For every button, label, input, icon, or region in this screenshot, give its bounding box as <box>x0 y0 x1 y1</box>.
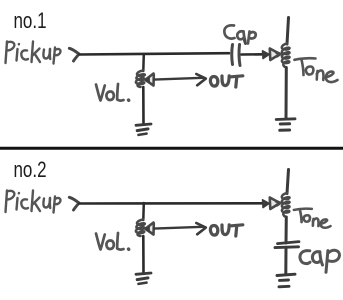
ground (vol, section 2) <box>136 273 151 284</box>
ground (tone cap, section 2) <box>277 274 295 287</box>
ground (vol, section 1) <box>136 124 151 135</box>
wire: cap to ground (section 2) <box>284 248 287 275</box>
wire: tone pot top lead (section 1) <box>287 18 289 45</box>
wire: main horizontal, pickup to tone wiper (section 2) <box>80 202 265 205</box>
label OUT (handwritten, section 1) <box>210 76 242 87</box>
svg-text:no.2: no.2 <box>14 157 47 182</box>
wire: vol pot to ground (section 1) <box>142 87 145 124</box>
divider line <box>0 147 343 150</box>
label Cap (handwritten, section 1) <box>224 25 255 43</box>
tone wiper arrow (section 1) <box>263 49 281 61</box>
wire: vol wiper to OUT arrow (section 2) <box>154 227 203 229</box>
capacitor C2 (tone cap, section 2) <box>275 242 299 248</box>
ground (tone, section 1) <box>276 119 295 131</box>
pickup arrow (section 2) <box>69 197 79 210</box>
potentiometer TONE (section 2) <box>282 193 290 217</box>
label OUT (handwritten, section 2) <box>210 225 242 236</box>
wire: tone pot to cap (section 2) <box>285 217 288 243</box>
svg-text:no.1: no.1 <box>14 8 47 33</box>
tone wiper arrow (section 2) <box>263 198 281 210</box>
label Tone (handwritten, section 2) <box>294 209 331 228</box>
potentiometer TONE (section 1) <box>282 44 290 68</box>
wire: cap to tone wiper (section 1) <box>242 53 265 56</box>
wire: vol pot to ground (section 2) <box>142 236 145 273</box>
wire: vol wiper to OUT arrow (section 1) <box>154 78 203 80</box>
OUT arrowhead (section 1) <box>196 74 206 85</box>
OUT arrowhead (section 2) <box>196 223 206 234</box>
label Pickup (handwritten, section 1) <box>6 42 61 64</box>
label Vol. (handwritten, section 2) <box>96 233 129 250</box>
pickup arrow (section 1) <box>69 48 79 61</box>
label Pickup (handwritten, section 2) <box>6 191 61 213</box>
capacitor C1 (series cap, section 1) <box>232 41 246 66</box>
label Cap (handwritten big, section 2) <box>300 250 339 272</box>
label Vol. (handwritten, section 1) <box>96 84 129 101</box>
wire: vol junction drop (section 1) <box>142 54 145 71</box>
potentiometer VOL (section 2) <box>136 220 145 237</box>
wire: tone pot top lead (section 2) <box>287 170 289 194</box>
wire: tone pot to ground (section 1) <box>285 68 288 120</box>
vol wiper arrow (section 1) <box>145 74 154 86</box>
potentiometer VOL (section 1) <box>136 71 145 88</box>
wire: main horizontal, pickup to cap (section 1) <box>80 53 230 54</box>
wire: vol junction drop (section 2) <box>142 203 145 220</box>
vol wiper arrow (section 2) <box>145 223 154 235</box>
label Tone (handwritten, section 1) <box>295 58 338 82</box>
